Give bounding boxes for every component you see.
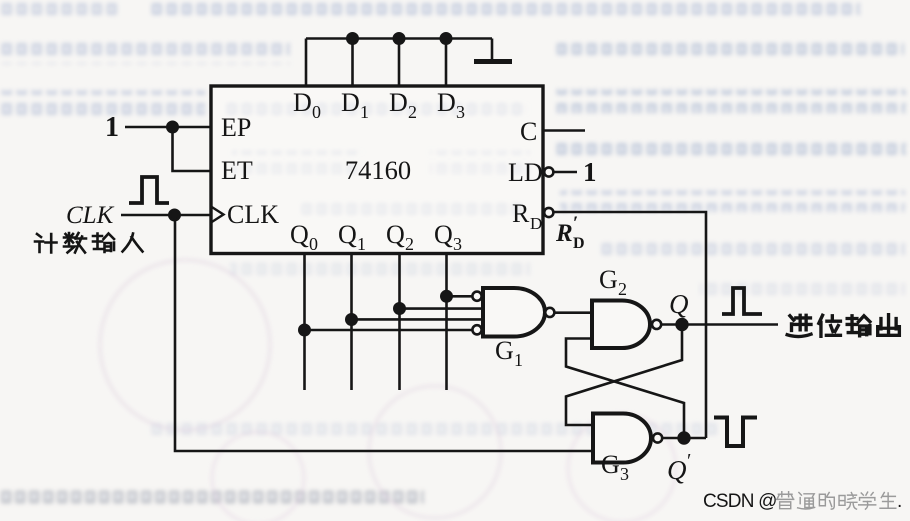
wire: G1 output to G2: [555, 311, 593, 314]
junction on D3: [441, 33, 451, 43]
svg-text:0: 0: [309, 234, 318, 254]
svg-text:D: D: [389, 88, 408, 117]
svg-text:1: 1: [514, 350, 523, 370]
wire: Q3 to G1 inverted input: [447, 295, 473, 298]
svg-text:Q: Q: [338, 220, 357, 249]
svg-text:Q: Q: [386, 220, 405, 249]
node Q: [677, 319, 688, 330]
junction on Q2: [394, 303, 404, 313]
junction on Q1: [346, 314, 356, 324]
wire: Q0 stub: [303, 254, 306, 391]
svg-text:G: G: [495, 336, 514, 365]
svg-text:2: 2: [618, 279, 627, 299]
RD bubble: [544, 208, 553, 217]
ground: [474, 59, 512, 64]
carry output pulse symbol: [722, 288, 762, 314]
wire: D3 stub: [445, 39, 448, 87]
svg-text:Q: Q: [434, 220, 453, 249]
wire: logic-1 to EP: [125, 126, 211, 129]
wire: CLK feedback to G3 lower input: [175, 215, 593, 451]
svg-text:CSDN @: CSDN @: [703, 491, 777, 512]
label 进位输出 (carry output): [787, 315, 899, 337]
wire: branch to ET: [173, 127, 212, 171]
wire: Q1 to G1 input: [352, 318, 485, 321]
svg-text:D: D: [573, 235, 585, 252]
wire: Q1 stub: [350, 254, 353, 391]
svg-text:.: .: [897, 491, 902, 512]
svg-text:D: D: [437, 88, 456, 117]
nand gate G2 body: [592, 301, 650, 349]
junction on Q3: [441, 291, 451, 301]
wire: C output stub: [543, 129, 585, 132]
CLK pulse symbol: [129, 177, 169, 203]
svg-text:Q: Q: [669, 289, 689, 319]
svg-text:C: C: [520, 117, 537, 146]
svg-text:Q: Q: [290, 220, 309, 249]
svg-text:D: D: [530, 214, 542, 233]
label 计数输入 (count input): [35, 233, 143, 253]
svg-text:1: 1: [360, 102, 369, 122]
junction on D1: [347, 33, 357, 43]
svg-text:1: 1: [357, 234, 366, 254]
svg-text:CLK: CLK: [66, 202, 115, 229]
wire: Q3 stub: [445, 254, 448, 391]
74160 counter U1 body: [211, 86, 543, 254]
wire: Q output line: [661, 323, 778, 326]
svg-text:CLK: CLK: [227, 200, 279, 229]
wire: Q2 stub: [398, 254, 401, 391]
svg-text:D: D: [293, 88, 312, 117]
wire: bus drop to ground: [491, 39, 494, 61]
wire: RD feedback from Q': [554, 212, 707, 438]
junction on D2: [394, 33, 404, 43]
nand gate G3 body: [593, 414, 651, 463]
svg-text:G: G: [599, 265, 618, 294]
svg-text:Q: Q: [667, 455, 687, 485]
svg-text:2: 2: [408, 102, 417, 122]
wire: top preset bus: [306, 37, 492, 40]
svg-text:0: 0: [312, 102, 321, 122]
svg-text:ET: ET: [221, 156, 253, 185]
svg-text:EP: EP: [221, 113, 251, 142]
wire: Q2 to G1 input: [400, 307, 485, 310]
node: CLK junction: [169, 210, 179, 220]
clock dynamic-input triangle: [211, 207, 224, 223]
svg-text:′: ′: [573, 213, 578, 234]
svg-text:1: 1: [583, 157, 597, 187]
watermark CSDN: [703, 491, 902, 512]
svg-text:3: 3: [456, 102, 465, 122]
G1 input bubble bottom: [472, 325, 481, 334]
wire: D2 stub: [398, 39, 401, 87]
svg-text:D: D: [341, 88, 360, 117]
G2 output bubble: [652, 320, 661, 329]
svg-text:′: ′: [687, 450, 691, 472]
Q' negative pulse symbol: [714, 418, 757, 447]
svg-text:LD: LD: [508, 158, 543, 187]
svg-text:74160: 74160: [345, 155, 411, 185]
wire: CLK input: [121, 214, 211, 217]
G1 output bubble: [545, 308, 554, 317]
junction on Q0: [299, 325, 309, 335]
svg-text:1: 1: [105, 112, 119, 143]
svg-text:2: 2: [405, 234, 414, 254]
node Q': [679, 433, 690, 444]
wire: cross-coupling Q' to G2 lower input: [566, 339, 684, 439]
wire: cross-coupling Q to G3 upper input: [566, 325, 682, 426]
svg-text:3: 3: [453, 234, 462, 254]
svg-text:3: 3: [620, 464, 629, 484]
wire: D1 stub: [351, 39, 354, 87]
wire: LD to logic-1: [554, 171, 578, 174]
node: junction at EP branch: [167, 122, 177, 132]
nand gate G1 body: [483, 288, 545, 337]
svg-text:G: G: [601, 450, 620, 479]
svg-text:R: R: [555, 220, 573, 247]
wire: Q0 to G1 inverted input: [305, 329, 473, 332]
G1 input bubble top: [472, 292, 481, 301]
LD bubble: [544, 167, 553, 176]
wire: Q' to RD feedback corner: [662, 437, 706, 440]
svg-text:R: R: [512, 199, 530, 228]
wire: D0 stub: [305, 39, 308, 87]
G3 output bubble: [653, 433, 662, 442]
